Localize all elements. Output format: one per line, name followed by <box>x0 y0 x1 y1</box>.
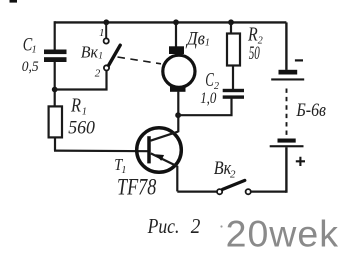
svg-text:2: 2 <box>230 169 236 181</box>
svg-text:20wek: 20wek <box>226 212 339 254</box>
svg-text:1,0: 1,0 <box>200 90 216 107</box>
svg-text:1: 1 <box>205 38 210 49</box>
svg-text:0,5: 0,5 <box>22 59 39 76</box>
svg-text:R: R <box>247 23 258 45</box>
svg-text:Рис.: Рис. <box>147 215 180 239</box>
svg-text:Вк: Вк <box>81 42 98 62</box>
svg-text:R: R <box>70 94 81 116</box>
svg-text:1: 1 <box>99 27 105 39</box>
svg-text:1: 1 <box>32 44 37 55</box>
svg-text:560: 560 <box>68 117 95 137</box>
svg-text:TF78: TF78 <box>117 176 157 200</box>
svg-text:2: 2 <box>191 215 201 238</box>
svg-text:1: 1 <box>98 52 103 62</box>
svg-text:1: 1 <box>82 107 87 118</box>
svg-text:2: 2 <box>95 68 101 80</box>
svg-text:Дв: Дв <box>185 27 205 48</box>
svg-text:1: 1 <box>121 165 126 176</box>
svg-text:Б-6в: Б-6в <box>295 99 326 121</box>
svg-text:50: 50 <box>249 43 260 64</box>
